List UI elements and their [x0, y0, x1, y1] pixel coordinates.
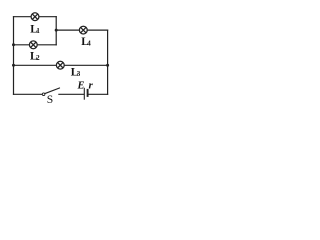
lamp L4 [79, 26, 87, 34]
wire switch to battery [59, 93, 84, 95]
junction node loop-L4 [55, 29, 58, 32]
junction node at left-L2 [12, 43, 15, 46]
wire L4 branch [56, 29, 107, 31]
wire L3 branch [14, 64, 108, 66]
wire left edge [13, 17, 15, 95]
switch S pivot [42, 93, 45, 96]
wire L2 branch [14, 44, 57, 46]
lamp L2 [29, 41, 37, 49]
junction node right-L3 [106, 64, 109, 67]
svg-text:S: S [47, 93, 53, 106]
battery plate long [83, 88, 85, 100]
svg-text:2: 2 [36, 54, 40, 62]
wire L1 branch top [14, 16, 57, 18]
svg-text:1: 1 [36, 27, 40, 35]
wire loop right edge [55, 17, 57, 45]
junction node at left-L3 [12, 64, 15, 67]
battery plate short [87, 89, 89, 97]
lamp L1 [31, 13, 39, 21]
wire right edge [107, 30, 109, 94]
svg-text:r: r [89, 80, 94, 92]
svg-text:4: 4 [87, 40, 91, 48]
switch S blade [45, 88, 60, 94]
wire bottom left to switch [14, 93, 43, 95]
svg-text:E: E [77, 81, 85, 92]
lamp L3 [56, 61, 64, 69]
svg-text:3: 3 [77, 70, 81, 78]
wire battery to right edge [89, 93, 108, 95]
